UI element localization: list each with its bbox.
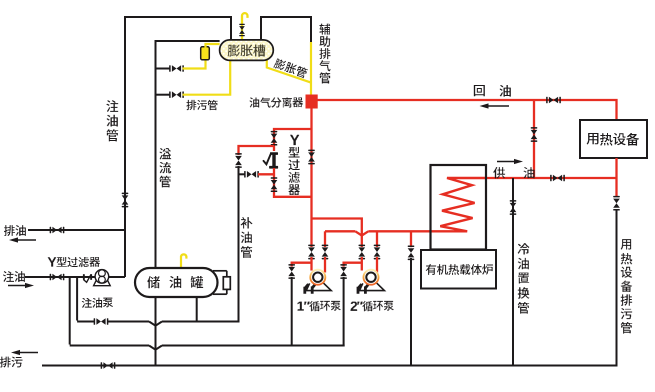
wire: supply oil line (red) [486, 177, 617, 179]
valve on vent hook [239, 24, 245, 36]
valve on tie line [531, 127, 538, 142]
junction chamfer bypass/overflow [149, 322, 162, 326]
wire: drain header y=345.5 [70, 345, 345, 347]
wire: pump1 nozzles (red) [312, 257, 326, 273]
label 辅助排气管 [320, 24, 331, 84]
label 注油管 [107, 100, 119, 141]
wire: main supply drop from separator (red) [310, 109, 312, 248]
wire: storage tank vent hook [181, 254, 186, 269]
gauge pot on expansion tank [201, 47, 210, 60]
wire: auxiliary vent pipe black part [261, 17, 311, 43]
valve on pump bypass [94, 318, 109, 325]
label 溢流管 [160, 148, 172, 187]
label 膨胀槽 [228, 44, 266, 56]
valve make-up upper [235, 153, 242, 168]
arrow supply flow (right) [497, 159, 523, 164]
label 储油罐 [148, 276, 204, 288]
label 1″循环泵 [298, 301, 341, 311]
valve on cold oil pipe [510, 200, 517, 215]
wire: equipment connection (red) [615, 158, 617, 197]
valve pump2 drain [340, 264, 347, 279]
label 用热设备排污管 [621, 239, 632, 333]
arrow oil drain (left) [9, 237, 36, 242]
oil-gas separator (red block) [306, 95, 318, 109]
valve on supply line [550, 175, 565, 182]
wire: furnace drain (red) [410, 231, 412, 247]
wire: expansion pipe 膨胀管 [267, 58, 311, 83]
wire: expansion tank vent hook [242, 13, 248, 41]
label 2″循环泵 [351, 301, 394, 311]
expansion tank 膨胀槽 [220, 40, 274, 61]
wire: blowdown stub 2 yellow [183, 60, 231, 95]
valve pump2 discharge [374, 245, 381, 260]
junction chamfer drain/overflow [149, 346, 162, 350]
valve blowdown 1 [169, 65, 184, 72]
label 排污 [0, 357, 23, 368]
valve pump1 drain [288, 264, 295, 279]
label 油气分离器 [250, 97, 304, 107]
junction chamfer on header [355, 231, 368, 235]
wire: cold oil replacement pipe [512, 178, 514, 366]
wire: pump2 discharge riser (red) [376, 231, 378, 247]
valve on return header [546, 97, 561, 104]
pump 注油泵 (injection pump) [94, 270, 111, 286]
valve pump2 suction [359, 245, 366, 260]
valve pump1 discharge [322, 245, 329, 260]
wire: furnace drain drop (black) [410, 258, 412, 366]
valve pump1 suction [308, 245, 315, 260]
label 排油 [4, 225, 26, 236]
wire: discharge header (red) [325, 230, 431, 232]
wire: blowdown stub 1 black part [156, 68, 171, 70]
valve on injection riser [122, 193, 129, 208]
wire: make-up branch (red) [239, 146, 275, 155]
valve blowdown 2 [169, 91, 184, 98]
valve oil injection [50, 274, 65, 281]
valve on main drop [308, 150, 315, 165]
furnace coil housing [431, 165, 487, 250]
wire: oil injection line 注油 [25, 276, 125, 278]
Y-filter U1 (red line strainer) [264, 152, 279, 168]
label 回油 [474, 85, 511, 97]
label 膨胀管 (rotated) [273, 58, 308, 79]
wire: pump1 drain stub (red) [292, 263, 312, 267]
wire: pump2 drain stub (red) [344, 263, 362, 267]
label 冷油置换管 [518, 243, 530, 313]
wire: injection branch drop 2 [76, 277, 78, 321]
wire: blowdown line 排污 y=365.5 [42, 365, 617, 367]
wire: return oil header (red) [318, 100, 617, 121]
pump P1 (1st circulating pump) [305, 270, 331, 294]
valve blowdown main [101, 362, 116, 369]
label 注油泵 [82, 298, 113, 308]
valve furnace drain [408, 245, 415, 260]
Y-strainer on injection line [83, 274, 92, 282]
storage tank level gauge [213, 271, 230, 294]
wire: furnace coil (red zigzag) [431, 178, 487, 231]
valve make-up cross [244, 171, 259, 178]
label 排污管 [187, 100, 218, 110]
wire: blowdown stub 2 black part [156, 94, 171, 96]
wire: make-up cross stub (black) [239, 173, 246, 175]
wire: injection branch drop 1 [69, 277, 71, 345]
furnace body 有机热载体炉 [421, 250, 496, 289]
wire: auxiliary vent pipe yellow part [310, 42, 312, 96]
wire: pump2 drain drop (black) [343, 277, 345, 347]
label 补油管 [241, 217, 253, 258]
wire: return-supply tie line x=534 [533, 100, 535, 178]
label 用热设备 [587, 133, 639, 146]
wire: pump1 discharge riser (red) [324, 231, 326, 247]
wire: make-up oil pipe 补油管 (black) [238, 166, 240, 323]
wire: gauge to tank yellow [206, 44, 220, 48]
wire: blowdown stub 1 yellow [183, 60, 206, 69]
valve bypass lower [271, 177, 278, 192]
wire: pump1 drain drop (black) [291, 277, 293, 347]
heat equipment 用热设备 [580, 120, 647, 158]
label Y型过滤器 (injection) [48, 257, 100, 267]
wire: storage tank outlet right [196, 296, 198, 323]
arrow return flow (left) [480, 103, 510, 108]
wire: equipment blowdown pipe (black) [616, 210, 618, 367]
arrow oil injection (right) [8, 283, 34, 288]
wire: bypass loop top (red) [274, 129, 312, 151]
label Y型过滤器 [289, 135, 300, 195]
wire: make-up cross stub (red) [258, 173, 275, 175]
label 有机热载体炉 [426, 264, 493, 275]
wire: pump bypass line y=321.5 [77, 321, 238, 323]
label 供油 [494, 167, 535, 178]
wire: oil drain line 排油 [28, 229, 125, 231]
wire: suction branch to pump2 (red) [312, 219, 362, 248]
wire: injection riser 注油管 x=125 with top header to expansion tank [125, 17, 231, 277]
pump P2 (2nd circulating pump) [358, 270, 384, 294]
wire: pump2 nozzles (red) [362, 257, 377, 273]
wire: bypass loop bottom (red) [274, 168, 312, 197]
valve bypass upper [271, 131, 278, 146]
valve equipment drain [613, 196, 620, 211]
arrow blowdown (left) [11, 350, 38, 355]
storage tank 储油罐 [135, 268, 218, 297]
label 注油 [3, 271, 25, 282]
valve oil drain [50, 227, 65, 234]
wire: overflow pipe 溢流管 x=155.5 [156, 41, 220, 366]
